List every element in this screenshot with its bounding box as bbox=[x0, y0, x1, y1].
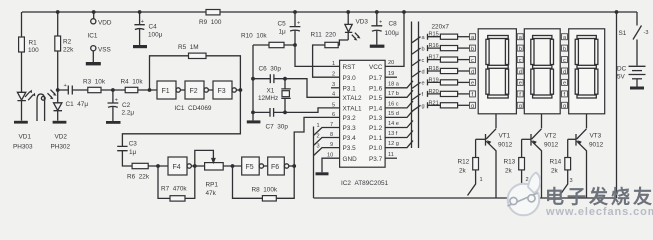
svg-text:R13: R13 bbox=[504, 159, 516, 166]
pin 16 wire segment c bbox=[385, 101, 413, 108]
capacitor C4 bbox=[134, 12, 162, 45]
resistor R13 bbox=[504, 139, 529, 195]
inverter gate F3 bbox=[213, 81, 242, 99]
segment pin strip 1 (a-g) bbox=[470, 34, 476, 110]
wire F6 output to P3.2 bbox=[294, 117, 339, 166]
svg-text:C1 47μ: C1 47μ bbox=[66, 101, 89, 108]
IC2 right pin names bbox=[369, 64, 383, 163]
svg-text:2: 2 bbox=[526, 177, 529, 183]
svg-text:+: + bbox=[141, 19, 144, 25]
svg-text:R12: R12 bbox=[458, 159, 470, 166]
svg-text:5V: 5V bbox=[617, 74, 626, 81]
svg-text:2k: 2k bbox=[459, 168, 467, 175]
wire F3 output down to C3 bbox=[122, 90, 240, 146]
svg-text:c: c bbox=[563, 58, 566, 64]
svg-text:R2: R2 bbox=[63, 39, 72, 46]
svg-text:2: 2 bbox=[332, 72, 335, 78]
svg-text:a: a bbox=[422, 35, 426, 41]
resistor R17 bbox=[422, 55, 470, 64]
svg-text:F3: F3 bbox=[218, 88, 226, 95]
resistor R15 bbox=[422, 32, 470, 41]
svg-text:VCC: VCC bbox=[369, 64, 383, 71]
resistor R12 bbox=[458, 139, 483, 195]
wire R4 to F1 bbox=[138, 88, 157, 92]
wire oscillator left column bbox=[251, 45, 255, 120]
svg-text:d: d bbox=[563, 69, 566, 75]
svg-text:R15: R15 bbox=[429, 32, 439, 38]
svg-text:R14: R14 bbox=[550, 159, 562, 166]
resistor R10 bbox=[241, 33, 297, 48]
diode VD3 LED bbox=[345, 12, 368, 41]
svg-text:P3.3: P3.3 bbox=[343, 125, 357, 132]
pin stub P3.1 bbox=[331, 87, 340, 89]
resistor R1 bbox=[19, 12, 40, 92]
svg-text:R9 100: R9 100 bbox=[199, 19, 222, 26]
resistor R19 bbox=[422, 77, 470, 86]
resistor R7 feedback bbox=[158, 166, 195, 201]
svg-text:P1.7: P1.7 bbox=[369, 75, 383, 82]
svg-text:11: 11 bbox=[388, 152, 394, 158]
svg-text:RP1: RP1 bbox=[206, 182, 219, 189]
svg-text:1: 1 bbox=[332, 61, 335, 67]
wire R3 to R4 bbox=[101, 88, 125, 92]
resistor R14 bbox=[550, 139, 573, 195]
svg-text:d: d bbox=[519, 69, 522, 75]
potentiometer RP1 bbox=[195, 150, 242, 197]
svg-text:e: e bbox=[422, 81, 425, 87]
svg-text:P3.0: P3.0 bbox=[343, 75, 357, 82]
resistor R4 bbox=[121, 79, 144, 93]
wire digit bus vertical bbox=[313, 127, 315, 199]
resistor R16 bbox=[422, 43, 470, 52]
svg-text:12 g: 12 g bbox=[388, 141, 399, 147]
svg-text:-3: -3 bbox=[644, 30, 649, 36]
capacitor C7 bbox=[253, 108, 288, 131]
svg-text:18 a: 18 a bbox=[388, 81, 400, 87]
resistor R2 bbox=[55, 12, 74, 103]
ground (VSS) bbox=[86, 62, 101, 65]
svg-text:R10 10k: R10 10k bbox=[241, 33, 267, 40]
svg-text:XTAL1: XTAL1 bbox=[343, 106, 363, 113]
segment pin strip 2 (a-g) bbox=[517, 34, 523, 110]
transistor VT3 9012 bbox=[568, 114, 604, 198]
inverter gate F6 bbox=[268, 157, 296, 175]
svg-text:VD1: VD1 bbox=[19, 134, 32, 141]
svg-text:C4: C4 bbox=[149, 24, 158, 31]
svg-text:F5: F5 bbox=[246, 164, 254, 171]
resistor R6 bbox=[127, 163, 168, 180]
inverter gate F5 bbox=[242, 157, 268, 175]
svg-text:9012: 9012 bbox=[589, 142, 604, 149]
svg-text:1: 1 bbox=[317, 123, 320, 129]
svg-text:IC1 CD4069: IC1 CD4069 bbox=[175, 105, 212, 112]
svg-text:1μ: 1μ bbox=[129, 149, 137, 156]
svg-text:P1.6: P1.6 bbox=[369, 85, 383, 92]
svg-text:g: g bbox=[563, 104, 566, 110]
svg-text:f: f bbox=[422, 92, 424, 98]
svg-text:+: + bbox=[297, 21, 300, 27]
svg-text:R4 10k: R4 10k bbox=[121, 79, 144, 86]
svg-text:3: 3 bbox=[570, 178, 573, 184]
svg-text:100μ: 100μ bbox=[148, 32, 163, 39]
svg-text:F1: F1 bbox=[162, 88, 170, 95]
resistor R11 bbox=[311, 32, 349, 78]
svg-text:C5: C5 bbox=[278, 21, 287, 28]
node label VD2 PH302 bbox=[51, 134, 71, 151]
pin 19 stub bbox=[385, 71, 397, 77]
resistor R9 bbox=[199, 10, 222, 27]
wire XTAL1 bbox=[285, 108, 340, 113]
svg-text:1μ: 1μ bbox=[279, 29, 287, 36]
svg-text:C8: C8 bbox=[389, 21, 398, 28]
svg-text:b: b bbox=[422, 46, 425, 52]
svg-text:R3 10k: R3 10k bbox=[83, 79, 106, 86]
resistor R20 bbox=[422, 89, 470, 98]
svg-text:R18: R18 bbox=[429, 66, 439, 72]
svg-text:P3.5: P3.5 bbox=[343, 145, 357, 152]
svg-text:20: 20 bbox=[388, 60, 394, 66]
svg-text:R19: R19 bbox=[429, 77, 439, 83]
svg-text:+: + bbox=[379, 20, 382, 26]
svg-text:b: b bbox=[563, 46, 566, 52]
ground (battery) bbox=[630, 87, 644, 90]
svg-text:P3.4: P3.4 bbox=[343, 135, 357, 142]
svg-text:100: 100 bbox=[28, 47, 39, 54]
segment pin strip 3 (a-g) bbox=[562, 34, 568, 110]
wire RST bbox=[295, 45, 340, 66]
capacitor C8 bbox=[371, 12, 399, 45]
svg-text:R21: R21 bbox=[429, 100, 439, 106]
svg-text:e: e bbox=[519, 81, 522, 87]
diode VD1 photodiode PH303 bbox=[17, 90, 35, 121]
battery DC 5V bbox=[617, 66, 646, 87]
inverter gate F2 bbox=[185, 81, 213, 99]
svg-text:VT1: VT1 bbox=[499, 133, 511, 140]
svg-text:R17: R17 bbox=[429, 55, 439, 61]
svg-text:R1: R1 bbox=[29, 40, 38, 47]
svg-text:g: g bbox=[519, 104, 522, 110]
svg-text:VT3: VT3 bbox=[590, 133, 602, 140]
resistor R21 bbox=[422, 100, 470, 109]
svg-text:d: d bbox=[422, 69, 425, 75]
ground (VD2) bbox=[53, 121, 67, 124]
node 3 stub (P3.5) bbox=[314, 144, 340, 156]
svg-text:47k: 47k bbox=[206, 190, 217, 197]
svg-text:14 e: 14 e bbox=[388, 121, 399, 127]
resistor R5 feedback bbox=[150, 44, 241, 90]
wire XTAL2 bbox=[285, 79, 340, 98]
capacitor C3 bbox=[117, 141, 137, 167]
svg-text:17 b: 17 b bbox=[388, 91, 399, 97]
svg-text:P1.1: P1.1 bbox=[369, 135, 383, 142]
wire VCC pin 20 bbox=[385, 12, 404, 66]
svg-text:9012: 9012 bbox=[498, 142, 513, 149]
capacitor C1 bbox=[58, 83, 89, 108]
svg-text:VDD: VDD bbox=[98, 20, 112, 27]
svg-text:F4: F4 bbox=[173, 164, 181, 171]
node 1 stub (P3.3) bbox=[314, 123, 340, 136]
svg-text:F2: F2 bbox=[190, 88, 198, 95]
resistor R8 feedback bbox=[233, 166, 295, 201]
svg-text:4: 4 bbox=[332, 92, 335, 98]
svg-text:C3: C3 bbox=[129, 141, 138, 148]
ground (oscillator) bbox=[247, 120, 261, 123]
svg-text:RST: RST bbox=[343, 64, 356, 71]
svg-text:c: c bbox=[519, 58, 522, 64]
svg-text:100μ: 100μ bbox=[385, 30, 400, 37]
svg-text:DC: DC bbox=[617, 66, 627, 73]
svg-text:c: c bbox=[471, 58, 474, 64]
diode VD2 photodiode PH302 bbox=[54, 88, 63, 121]
display DS3 bbox=[569, 29, 605, 114]
capacitor C6 bbox=[253, 66, 285, 84]
ground (C4) bbox=[133, 45, 147, 48]
ground (IC2 GND pin 10) bbox=[316, 158, 340, 175]
svg-text:g: g bbox=[471, 104, 474, 110]
svg-text:VT2: VT2 bbox=[545, 133, 557, 140]
wire top +5V rail bbox=[22, 10, 637, 14]
svg-text:VD3: VD3 bbox=[356, 19, 369, 26]
node label VD1 PH303 bbox=[13, 134, 33, 151]
svg-text:22k: 22k bbox=[63, 47, 74, 54]
svg-text:R11 220: R11 220 bbox=[311, 32, 337, 39]
pin 12 wire segment g bbox=[385, 141, 413, 148]
svg-text:9012: 9012 bbox=[544, 142, 559, 149]
IC2 left pin names bbox=[343, 64, 363, 163]
svg-text:+: + bbox=[115, 98, 118, 104]
svg-text:P3.1: P3.1 bbox=[343, 85, 357, 92]
svg-text:c: c bbox=[422, 58, 425, 64]
svg-text:C6 30p: C6 30p bbox=[259, 66, 282, 73]
svg-text:6: 6 bbox=[332, 112, 335, 118]
svg-text:+: + bbox=[64, 83, 67, 89]
svg-text:12MHz: 12MHz bbox=[258, 95, 278, 102]
svg-text:2: 2 bbox=[317, 134, 320, 140]
pin 13 wire segment f bbox=[385, 131, 413, 138]
svg-text:2k: 2k bbox=[551, 168, 559, 175]
svg-text:F6: F6 bbox=[271, 164, 279, 171]
svg-text:R16: R16 bbox=[429, 43, 439, 49]
wire bottom rail bbox=[314, 197, 617, 199]
ground (VD1) bbox=[14, 121, 28, 124]
svg-text:P1.0: P1.0 bbox=[369, 145, 383, 152]
IC1 power VDD bbox=[91, 12, 112, 27]
svg-text:P3.2: P3.2 bbox=[343, 115, 357, 122]
svg-text:P1.3: P1.3 bbox=[369, 115, 383, 122]
svg-text:b: b bbox=[471, 46, 474, 52]
pin 15 wire segment d bbox=[385, 110, 413, 117]
inverter gate F4 bbox=[168, 157, 205, 175]
IC1 power VSS bbox=[91, 46, 111, 62]
svg-text:S1: S1 bbox=[619, 30, 627, 37]
pin 14 wire segment e bbox=[385, 121, 413, 128]
svg-text:www.elecfans.com: www.elecfans.com bbox=[545, 206, 653, 218]
resistor R3 bbox=[83, 79, 106, 93]
svg-text:PH302: PH302 bbox=[51, 144, 71, 151]
drip chamber light path bbox=[37, 90, 57, 121]
svg-text:VD2: VD2 bbox=[55, 134, 68, 141]
svg-text:2.2μ: 2.2μ bbox=[122, 110, 135, 117]
display DS1 bbox=[478, 29, 516, 114]
svg-text:P3.7: P3.7 bbox=[369, 156, 383, 163]
svg-text:e: e bbox=[563, 81, 566, 87]
svg-text:R8 100k: R8 100k bbox=[252, 187, 278, 194]
pin 17 wire segment b bbox=[385, 90, 413, 97]
svg-text:220x7: 220x7 bbox=[432, 24, 450, 31]
op-amp U1 IC2 AT89C2051 body bbox=[340, 60, 386, 167]
svg-text:XTAL2: XTAL2 bbox=[343, 95, 363, 102]
pin 18 wire segment a bbox=[385, 81, 413, 88]
wire segment bus verticals bbox=[412, 22, 421, 149]
svg-text:g: g bbox=[422, 104, 425, 110]
svg-text:2k: 2k bbox=[505, 168, 513, 175]
svg-text:1: 1 bbox=[480, 177, 483, 183]
svg-text:PH303: PH303 bbox=[13, 144, 33, 151]
svg-text:13 f: 13 f bbox=[388, 131, 398, 137]
switch S1 bbox=[619, 12, 649, 66]
IC2 left pin numbers bbox=[327, 61, 335, 159]
pin 11 stub bbox=[385, 152, 397, 158]
ground (C8) bbox=[370, 45, 385, 48]
svg-text:X1: X1 bbox=[267, 88, 275, 95]
svg-text:e: e bbox=[471, 81, 474, 87]
svg-text:电子发烧友: 电子发烧友 bbox=[545, 185, 653, 208]
svg-text:3: 3 bbox=[317, 144, 320, 150]
svg-text:R7 470k: R7 470k bbox=[161, 186, 187, 193]
svg-text:IC1: IC1 bbox=[88, 33, 98, 40]
svg-text:15 d: 15 d bbox=[388, 111, 399, 117]
transistor VT2 9012 bbox=[522, 114, 559, 198]
svg-text:C7 30p: C7 30p bbox=[266, 124, 289, 131]
capacitor C5 bbox=[278, 12, 301, 45]
display DS2 bbox=[524, 29, 560, 114]
svg-text:P1.4: P1.4 bbox=[369, 106, 383, 113]
svg-text:R6 22k: R6 22k bbox=[127, 174, 150, 181]
transistor VT1 9012 bbox=[476, 114, 513, 198]
watermark logo bbox=[508, 173, 541, 216]
svg-text:b: b bbox=[519, 46, 522, 52]
svg-text:P1.2: P1.2 bbox=[369, 125, 383, 132]
svg-text:16 c: 16 c bbox=[388, 102, 399, 108]
svg-text:R20: R20 bbox=[429, 89, 439, 95]
svg-text:C2: C2 bbox=[122, 102, 131, 109]
svg-text:5: 5 bbox=[332, 102, 335, 108]
inverter gate F1 bbox=[157, 81, 185, 99]
wire +5V right drop bbox=[616, 12, 618, 198]
crystal X1 12MHz bbox=[258, 77, 291, 115]
svg-text:IC2 AT89C2051: IC2 AT89C2051 bbox=[341, 180, 389, 187]
svg-text:d: d bbox=[471, 69, 474, 75]
capacitor C2 bbox=[108, 90, 135, 121]
svg-text:19: 19 bbox=[388, 71, 394, 77]
svg-text:R5 1M: R5 1M bbox=[178, 44, 199, 51]
node 2 stub (P3.4) bbox=[314, 134, 340, 146]
svg-text:VSS: VSS bbox=[98, 47, 111, 54]
svg-text:GND: GND bbox=[343, 156, 358, 163]
ground (C2) bbox=[106, 121, 121, 124]
svg-text:P1.5: P1.5 bbox=[369, 95, 383, 102]
resistor R18 bbox=[422, 66, 470, 75]
